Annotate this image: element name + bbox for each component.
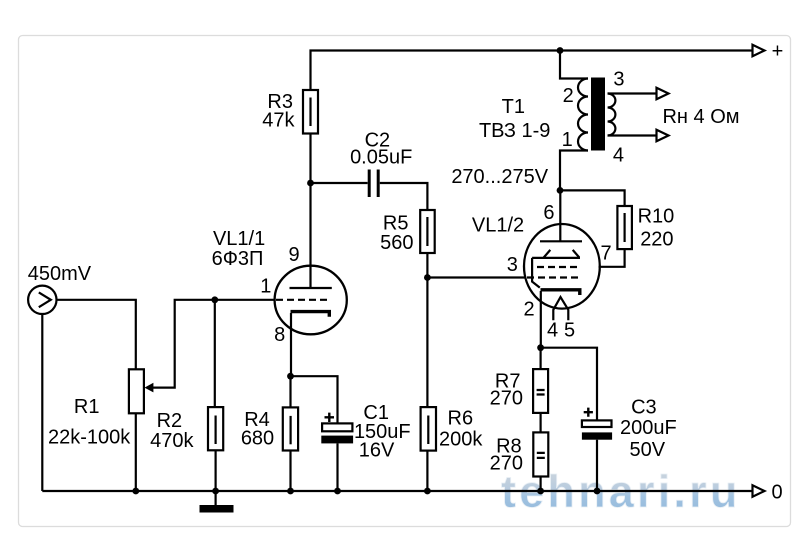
svg-text:T1: T1: [502, 96, 525, 118]
node rail C1: [334, 488, 341, 495]
wire secondary bottom lead: [608, 134, 657, 136]
svg-text:50V: 50V: [630, 439, 666, 461]
resistor R3: [303, 90, 318, 134]
svg-text:VL1/2: VL1/2: [472, 215, 524, 237]
resistor R2: [214, 300, 216, 407]
svg-text:3: 3: [613, 68, 624, 90]
node: rail/transformer junction: [557, 47, 564, 54]
svg-text:2: 2: [523, 299, 534, 321]
node R2/grid junction: [211, 296, 218, 303]
wire anode lead VL1/1: [309, 183, 311, 288]
heater VL1/2: [553, 297, 568, 320]
svg-text:6Ф3П: 6Ф3П: [212, 248, 264, 270]
wire node to C2: [311, 182, 368, 184]
wire C2 to R5: [380, 183, 428, 210]
wire junction to pentode grid pin3: [427, 276, 526, 278]
resistor R8: [533, 432, 548, 476]
terminal secondary pin3: [657, 88, 669, 99]
wire junction to C3: [541, 348, 597, 421]
tube VL1/1 triode: [275, 266, 347, 335]
svg-text:9: 9: [288, 244, 299, 266]
anode VL1/2: [540, 240, 582, 242]
svg-text:1: 1: [260, 275, 271, 297]
terminal secondary pin4: [657, 130, 669, 141]
wire junction down to R6: [426, 278, 428, 408]
transformer T1 primary winding: [578, 79, 588, 151]
svg-text:2: 2: [563, 85, 574, 107]
wire anode lead VL1/2: [559, 190, 561, 241]
resistor R6: [421, 407, 436, 451]
wire junction to C1: [291, 376, 338, 423]
svg-text:270: 270: [490, 453, 523, 475]
screen grid VL1/2 (dashed): [537, 266, 581, 268]
cathode VL1/2: [541, 290, 580, 295]
transformer T1 secondary winding: [608, 94, 616, 136]
wire R2 bottom: [215, 450, 217, 491]
resistor R4: [289, 376, 291, 407]
tube VL1/2 pentode: [524, 224, 600, 309]
node rail C3: [594, 488, 601, 495]
wire T1 primary top lead: [560, 51, 588, 79]
cathode VL1/1: [291, 312, 330, 317]
svg-text:47k: 47k: [262, 110, 295, 132]
plus sign C1: [325, 413, 335, 422]
svg-text:8: 8: [274, 324, 285, 346]
wiper arrow R1: [145, 383, 154, 393]
beam plates VL1/2: [532, 250, 580, 258]
terminal +: [753, 45, 765, 56]
wire R4 bottom: [289, 451, 291, 492]
node R5/R6/grid junction: [424, 274, 431, 281]
svg-text:200k: 200k: [439, 429, 483, 451]
svg-text:Rн 4 Ом: Rн 4 Ом: [662, 106, 739, 128]
wire source down to 0 rail: [41, 314, 43, 491]
svg-text:4: 4: [613, 144, 624, 166]
node rail R8: [537, 488, 544, 495]
node rail R4: [287, 488, 294, 495]
node rail R1: [132, 488, 139, 495]
svg-text:VL1/1: VL1/1: [213, 228, 265, 250]
resistor R10: [560, 190, 625, 206]
node T1/anode junction: [557, 187, 564, 194]
wire T1 primary bottom lead: [560, 151, 588, 191]
bottom 0 rail: [42, 490, 752, 492]
svg-text:R6: R6: [448, 408, 474, 430]
svg-text:220: 220: [640, 229, 673, 251]
svg-text:6: 6: [543, 202, 554, 224]
grid VL1/1 (dashed): [276, 299, 331, 301]
svg-text:R10: R10: [638, 206, 675, 228]
node cathode/R7/C3 junction: [537, 344, 544, 351]
signal source 450mV: [28, 286, 56, 314]
control grid VL1/2 (dashed): [527, 276, 581, 278]
svg-text:270: 270: [490, 388, 523, 410]
wire R6 bottom: [426, 451, 428, 491]
node rail R2: [212, 488, 219, 495]
ground: [215, 491, 217, 505]
capacitor C1: [322, 423, 352, 431]
svg-text:ТВЗ 1-9: ТВЗ 1-9: [479, 120, 550, 142]
resistor R7: [539, 348, 541, 369]
svg-text:0.05uF: 0.05uF: [350, 147, 412, 169]
svg-text:R1: R1: [74, 396, 100, 418]
svg-text:200uF: 200uF: [620, 417, 677, 439]
wire secondary top lead: [608, 92, 657, 94]
wire R7 to R8: [539, 413, 541, 433]
svg-text:270...275V: 270...275V: [451, 166, 548, 188]
top +B rail: [311, 51, 753, 91]
transformer T1 core: [591, 78, 605, 151]
wire R1 bottom: [135, 413, 137, 491]
svg-text:680: 680: [241, 428, 274, 450]
node rail R6: [424, 488, 431, 495]
node cathode/R4/C1 junction: [287, 373, 294, 380]
svg-text:5: 5: [564, 320, 575, 342]
node R3/C2/anode junction: [307, 180, 314, 187]
svg-text:C3: C3: [631, 397, 657, 419]
wire screen to R10: [599, 249, 625, 267]
svg-text:16V: 16V: [359, 440, 395, 462]
svg-text:0: 0: [771, 482, 782, 504]
svg-text:470k: 470k: [150, 430, 194, 452]
potentiometer R1: [129, 369, 144, 413]
wire R5 bottom: [426, 253, 428, 278]
capacitor C2: [368, 170, 371, 198]
svg-text:+: +: [772, 41, 784, 63]
svg-text:R2: R2: [157, 410, 183, 432]
beam plates to cathode connector: [532, 258, 540, 288]
anode VL1/1: [290, 287, 332, 289]
svg-text:1: 1: [562, 129, 573, 151]
capacitor C3: [582, 420, 612, 427]
svg-text:560: 560: [380, 232, 413, 254]
plus sign C3: [584, 408, 593, 417]
svg-text:7: 7: [600, 243, 611, 265]
svg-text:22k-100k: 22k-100k: [48, 427, 131, 449]
wire cathode lead down: [290, 313, 292, 376]
svg-text:3: 3: [507, 254, 518, 276]
svg-text:450mV: 450mV: [28, 263, 92, 285]
terminal 0: [753, 485, 765, 496]
wire cathode lead down VL1/2: [540, 291, 542, 348]
wire wiper to grid line: [153, 300, 274, 388]
wire source to R1 top: [57, 300, 136, 370]
wire R3 bottom to node: [309, 134, 311, 184]
wire R8 bottom: [539, 477, 541, 492]
resistor R5: [420, 210, 435, 253]
svg-text:4: 4: [547, 320, 558, 342]
